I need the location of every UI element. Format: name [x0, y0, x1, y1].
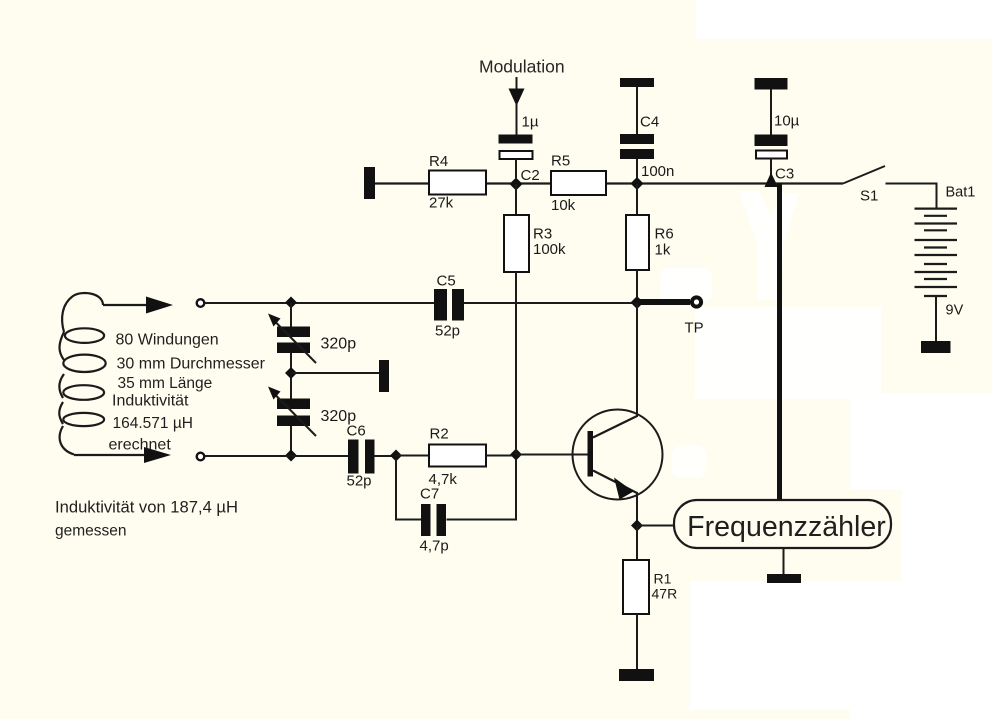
svg-text:30 mm Durchmesser: 30 mm Durchmesser: [117, 356, 266, 373]
wire emitter node to R1: [636, 526, 638, 561]
inductor L1 coil: [59, 293, 105, 455]
battery Bat1: [915, 209, 958, 296]
svg-text:52p: 52p: [347, 473, 372, 490]
svg-text:164.571 µH: 164.571 µH: [113, 415, 193, 432]
capacitor C2 (1u): [499, 135, 533, 160]
capacitor C7: [421, 504, 446, 536]
node TP: [692, 297, 701, 306]
wire arrow to C2: [516, 103, 518, 135]
wire R3 down to base node: [515, 272, 517, 455]
svg-text:10k: 10k: [551, 197, 576, 214]
wire thick to TP: [640, 299, 690, 305]
Frequenzzaehler block: [674, 500, 891, 548]
capacitor C5: [434, 289, 464, 321]
svg-text:320p: 320p: [321, 336, 357, 353]
terminal bar rail left: [364, 167, 375, 199]
svg-text:C2: C2: [521, 167, 540, 184]
ground below R1: [619, 669, 654, 681]
svg-text:1k: 1k: [655, 242, 671, 259]
resistor R2: [429, 445, 486, 467]
svg-text:100n: 100n: [641, 163, 674, 180]
wire C4 to rail: [636, 159, 638, 178]
svg-text:9V: 9V: [946, 303, 964, 319]
modulation arrow: [509, 89, 525, 107]
wire emitter node to Frequenzzaehler: [637, 525, 674, 527]
svg-text:Bat1: Bat1: [946, 185, 976, 201]
ground below Frequenzzaehler: [767, 574, 801, 583]
junction base node: [510, 449, 522, 461]
ground below battery: [921, 341, 951, 353]
svg-text:C3: C3: [775, 166, 794, 183]
svg-text:47R: 47R: [652, 586, 678, 602]
capacitor C3 (10u): [755, 135, 788, 159]
thick wire to Frequenzzaehler with up arrow: [765, 173, 780, 501]
svg-text:TP: TP: [685, 320, 704, 337]
wire R6 to TP node: [636, 270, 638, 302]
wire battery to ground: [935, 296, 937, 341]
wire C4 bar to plates: [636, 87, 638, 134]
svg-text:erechnet: erechnet: [109, 437, 172, 454]
svg-text:R3: R3: [533, 226, 552, 243]
node: coil top terminal: [197, 299, 205, 307]
svg-text:gemessen: gemessen: [55, 523, 127, 540]
label: Induktivitaet von 187,4 uH gemessen: [55, 498, 238, 540]
wire TP node down to collector: [636, 303, 638, 417]
capacitor C4: [620, 134, 654, 159]
resistor R1: [623, 560, 649, 614]
svg-text:R6: R6: [655, 226, 674, 243]
svg-text:100k: 100k: [533, 241, 566, 258]
junction between varcaps: [285, 367, 297, 379]
wire R2 to base node: [486, 455, 516, 457]
variable capacitor 320p (bottom): [268, 387, 316, 437]
wire C5 right to junction: [464, 302, 637, 304]
resistor R3: [504, 215, 529, 272]
svg-text:R2: R2: [430, 426, 449, 443]
background white patches (decorative) drawn first: [696, 0, 992, 39]
wire C2 node down to R3: [515, 184, 517, 215]
wire C4 node down to R6: [636, 184, 638, 215]
svg-text:10µ: 10µ: [774, 113, 800, 130]
junction TP node: [631, 296, 644, 309]
svg-text:R5: R5: [551, 153, 570, 170]
svg-text:35 mm Länge: 35 mm Länge: [118, 375, 213, 392]
wire Frequenzzaehler to ground: [783, 548, 785, 574]
wire R1 to ground: [636, 614, 638, 669]
junction bottom of varcap column: [285, 450, 297, 462]
terminal bar (tap): [379, 360, 389, 392]
svg-text:S1: S1: [860, 188, 878, 205]
junction emitter node: [631, 520, 643, 532]
svg-text:1µ: 1µ: [522, 114, 539, 131]
svg-text:C4: C4: [640, 114, 659, 131]
svg-text:R4: R4: [429, 153, 448, 170]
svg-text:Induktivität: Induktivität: [112, 393, 189, 410]
svg-text:Modulation: Modulation: [479, 57, 565, 77]
resistor R6: [626, 215, 649, 270]
wire modulation input: [516, 77, 518, 90]
wire base node to transistor: [516, 454, 588, 456]
wire S1 to battery corner: [886, 184, 937, 210]
wire C7 loop: [396, 459, 516, 520]
junction C4 node: [631, 177, 644, 190]
wire collector up: [636, 308, 638, 416]
svg-text:C6: C6: [347, 423, 366, 440]
capacitor C3 top bar: [755, 78, 788, 90]
switch S1: [843, 166, 885, 184]
wire C6 to node: [375, 455, 397, 457]
junction C2 node: [510, 178, 523, 191]
resistor R4: [429, 171, 486, 195]
wire top line from terminal to C5: [205, 302, 435, 304]
svg-text:52p: 52p: [435, 323, 460, 340]
svg-text:R1: R1: [654, 571, 672, 587]
svg-text:27k: 27k: [429, 195, 454, 212]
wire coil top lead: [103, 297, 173, 314]
wire C3 bar to plates: [770, 89, 772, 135]
wire C3 to rail: [770, 158, 772, 177]
capacitor C4 top bar: [620, 78, 654, 87]
wire emitter down: [636, 492, 638, 526]
junction node R2 left: [390, 450, 402, 462]
variable capacitor 320p (top): [268, 314, 316, 364]
svg-text:Frequenzzähler: Frequenzzähler: [687, 511, 886, 543]
svg-text:C5: C5: [437, 273, 456, 290]
wire tap to terminal bar: [291, 372, 379, 374]
capacitor C6: [348, 440, 375, 474]
svg-text:Induktivität von 187,4 µH: Induktivität von 187,4 µH: [55, 498, 238, 517]
supply rail wire: [375, 182, 843, 184]
wire C2 to rail: [515, 159, 517, 178]
wire node to R2: [396, 455, 429, 457]
wire coil bottom lead: [74, 447, 171, 463]
svg-text:4,7p: 4,7p: [420, 538, 449, 555]
node: coil bottom terminal: [197, 453, 205, 461]
svg-text:C7: C7: [420, 486, 439, 503]
wire bottom line terminal to C6: [205, 455, 349, 457]
resistor R5: [551, 171, 606, 195]
junction top of varcap column: [285, 297, 297, 309]
transistor Q1: [573, 410, 663, 500]
svg-text:80 Windungen: 80 Windungen: [116, 332, 219, 349]
wire varcap column upper: [290, 303, 292, 456]
